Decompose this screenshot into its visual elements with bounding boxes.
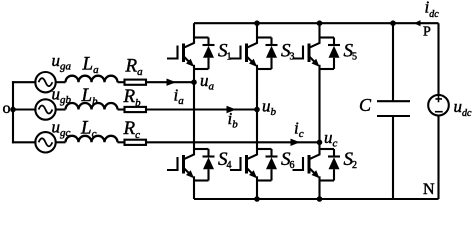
current arrow i_b <box>227 106 237 113</box>
capacitor C <box>377 23 410 199</box>
AC source u_ga <box>35 72 55 92</box>
IGBT switch S4 with anti-parallel diode <box>167 149 215 181</box>
svg-text:Rc: Rc <box>123 118 141 141</box>
node u_b junction dot <box>254 107 260 113</box>
current arrow i_dc <box>414 20 421 26</box>
wire phase a to node u_a <box>146 81 194 83</box>
svg-text:ugb: ugb <box>52 84 72 106</box>
IGBT switch S3 with anti-parallel diode <box>230 38 278 70</box>
svg-text:ib: ib <box>228 109 239 131</box>
IGBT switch S1 with anti-parallel diode <box>167 38 215 70</box>
svg-text:La: La <box>82 54 100 77</box>
svg-text:C: C <box>359 95 372 115</box>
svg-text:Lb: Lb <box>81 85 99 108</box>
resistor Ra <box>118 80 147 85</box>
node u_a junction dot <box>191 79 197 85</box>
node o junction dot <box>10 107 16 113</box>
junction dot top rail leg3 <box>317 20 323 26</box>
wire phase b to node u_b <box>146 108 257 110</box>
svg-text:Lc: Lc <box>80 118 97 141</box>
IGBT switch S2 with anti-parallel diode <box>293 149 341 181</box>
node u_c junction dot <box>317 140 323 146</box>
AC source u_gc <box>35 132 55 152</box>
svg-text:ia: ia <box>174 86 185 108</box>
wire phase b stub <box>13 108 35 110</box>
wire phase a stub <box>13 81 35 83</box>
svg-text:1: 1 <box>227 52 232 63</box>
inductor Lb <box>56 103 118 109</box>
DC source u_dc <box>428 23 449 199</box>
wire leg c vertical <box>318 23 320 199</box>
wire bottom DC rail N <box>194 198 439 200</box>
inductor La <box>56 76 118 83</box>
svg-text:5: 5 <box>352 52 357 63</box>
svg-text:udc: udc <box>454 97 473 119</box>
AC source u_gb <box>35 99 55 119</box>
svg-text:Ra: Ra <box>125 56 144 79</box>
svg-text:ua: ua <box>200 71 215 93</box>
svg-text:ugc: ugc <box>52 118 71 140</box>
wire leg a vertical <box>193 23 195 199</box>
wire left neutral bus <box>12 82 14 142</box>
svg-text:3: 3 <box>290 52 295 63</box>
svg-text:N: N <box>423 181 435 198</box>
junction dot bottom rail leg2 <box>254 196 260 202</box>
svg-text:uga: uga <box>52 51 72 73</box>
svg-text:P: P <box>423 25 431 40</box>
junction dot bottom rail leg3 <box>317 196 323 202</box>
svg-text:Rb: Rb <box>123 86 142 109</box>
resistor Rc <box>118 140 147 145</box>
svg-text:ub: ub <box>262 97 277 119</box>
wire leg b vertical <box>256 23 258 199</box>
svg-text:uc: uc <box>324 128 338 150</box>
current arrow i_c <box>291 139 301 146</box>
resistor Rb <box>118 107 147 112</box>
wire top DC rail P <box>194 22 439 24</box>
svg-text:idc: idc <box>425 0 440 20</box>
svg-text:ic: ic <box>294 119 304 141</box>
current arrow i_a <box>167 79 177 86</box>
junction dot top rail capacitor <box>390 20 396 26</box>
inductor Lc <box>56 136 118 143</box>
svg-text:2: 2 <box>352 160 357 171</box>
IGBT switch S5 with anti-parallel diode <box>293 38 341 70</box>
wire phase c stub <box>13 141 35 143</box>
svg-text:o: o <box>3 100 11 117</box>
wire phase c to node u_c <box>146 141 320 143</box>
junction dot top rail leg2 <box>254 20 260 26</box>
IGBT switch S6 with anti-parallel diode <box>230 149 278 181</box>
